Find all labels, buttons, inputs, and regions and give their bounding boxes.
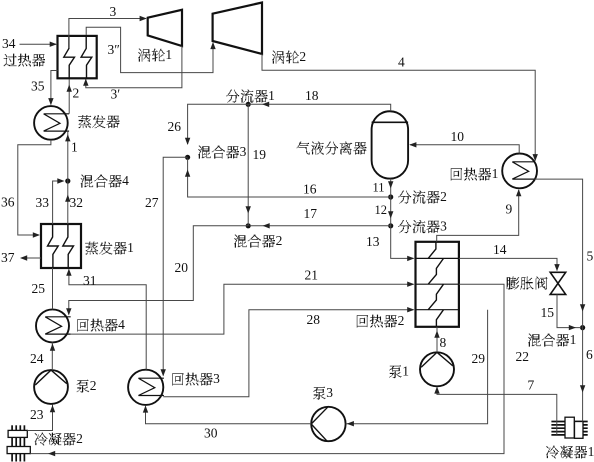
label 混合器4: [81, 173, 129, 188]
svg-text:19: 19: [253, 147, 267, 162]
evaporator 蒸发器: [34, 106, 69, 140]
wire 28 regenerator3 to regenerator2: [163, 307, 414, 397]
label 34: [2, 36, 16, 51]
condenser 冷凝器1: [551, 417, 587, 438]
svg-text:26: 26: [168, 119, 182, 134]
svg-text:29: 29: [472, 351, 486, 366]
svg-text:16: 16: [303, 182, 317, 197]
svg-text:3: 3: [326, 385, 333, 400]
node 混合器4: [65, 178, 70, 183]
label 27: [145, 195, 159, 210]
label 30: [204, 426, 218, 441]
svg-text:33: 33: [36, 195, 50, 210]
label 2: [73, 86, 80, 101]
label 25: [32, 281, 46, 296]
wire 37 evaporator1 outlet: [20, 255, 41, 260]
wire 26 splitter1 to mixer3: [185, 104, 248, 145]
wire 11 separator to splitter2: [388, 179, 393, 197]
node 分流器1: [246, 102, 251, 107]
label 31: [83, 273, 97, 288]
label 9: [506, 202, 513, 217]
label 分流器1: [226, 88, 275, 103]
regenerator 回热器2: [416, 242, 459, 327]
label 回热器3: [172, 371, 220, 386]
turbine 涡轮2: [213, 3, 262, 55]
condenser 冷凝器2: [7, 425, 30, 461]
svg-text:3: 3: [240, 144, 247, 159]
svg-text:34: 34: [2, 36, 16, 51]
wire 14 regenerator2 to valve: [459, 258, 560, 271]
pump 泵3: [311, 407, 345, 441]
regenerator 回热器3: [128, 370, 164, 405]
svg-text:3″: 3″: [108, 42, 120, 57]
label 回热器2: [357, 313, 405, 328]
label 冷凝器1: [546, 444, 594, 459]
label 3: [110, 4, 117, 19]
svg-text:1: 1: [570, 332, 577, 347]
svg-text:1: 1: [127, 240, 134, 255]
label 35: [31, 79, 45, 94]
svg-text:4: 4: [398, 55, 405, 70]
regenerator 回热器4: [36, 309, 71, 342]
wire 22 regenerator2 to condenser2: [30, 284, 504, 456]
label 28: [307, 312, 321, 327]
pump 泵2: [34, 370, 68, 404]
svg-text:36: 36: [1, 195, 15, 210]
svg-text:35: 35: [31, 79, 45, 94]
node 混合器3: [185, 155, 190, 160]
label 10: [451, 129, 465, 144]
svg-text:3: 3: [213, 371, 220, 386]
svg-text:23: 23: [30, 407, 44, 422]
label 37: [1, 250, 15, 265]
svg-text:2: 2: [299, 49, 306, 64]
label 泵1: [389, 364, 409, 379]
svg-text:2: 2: [276, 233, 283, 248]
svg-text:30: 30: [204, 426, 218, 441]
svg-text:22: 22: [516, 349, 530, 364]
label 蒸发器: [78, 115, 119, 128]
label 12: [375, 203, 388, 217]
label 8: [440, 335, 447, 350]
wire 34 inlet: [20, 42, 57, 47]
svg-text:28: 28: [307, 312, 321, 327]
svg-text:1: 1: [492, 166, 499, 181]
svg-text:25: 25: [32, 281, 46, 296]
svg-text:2: 2: [90, 378, 97, 393]
wire 33 evaporator1 to mixer4: [53, 178, 65, 224]
wire 16 splitter2 to mixer3: [185, 159, 391, 198]
label 分流器2: [398, 189, 447, 204]
label 26: [168, 119, 182, 134]
wire 30 regenerator2/pump3 to regenerator3: [143, 310, 488, 427]
regenerator 回热器1: [502, 154, 537, 189]
svg-text:4: 4: [122, 173, 129, 188]
label 7: [528, 378, 535, 393]
label 5: [587, 249, 594, 264]
wire 21 regenerator4 to regenerator2: [71, 282, 415, 335]
label 23: [30, 407, 44, 422]
expansion-valve 膨胀阀: [550, 272, 566, 294]
wire 19 splitter1 to mixer2: [246, 104, 251, 226]
wire 7 condenser1 to pump1: [434, 386, 557, 435]
svg-text:1: 1: [268, 88, 275, 103]
wire 1 mixer4 to evaporator: [65, 131, 70, 181]
node 分流器2: [388, 194, 393, 199]
wire 10 regenerator1 to separator: [409, 142, 519, 153]
label 15: [541, 305, 555, 320]
pump 泵1: [420, 352, 454, 386]
svg-text:1: 1: [165, 47, 172, 62]
label 11: [373, 180, 385, 194]
svg-text:15: 15: [541, 305, 555, 320]
wire 2 evaporator to superheater: [67, 80, 72, 114]
label 6: [586, 347, 593, 362]
svg-text:3: 3: [440, 219, 447, 234]
svg-text:4: 4: [118, 317, 125, 332]
svg-text:11: 11: [373, 180, 385, 194]
svg-text:27: 27: [145, 195, 159, 210]
wire 35 superheater to evaporator: [48, 71, 57, 106]
svg-text:2: 2: [73, 86, 80, 101]
svg-text:3′: 3′: [111, 87, 121, 102]
wire 27 mixer3 to regenerator3: [161, 157, 188, 376]
svg-text:6: 6: [586, 347, 593, 362]
svg-text:21: 21: [305, 268, 319, 283]
label 泵3: [313, 385, 333, 400]
wire 12 splitter2 to splitter3: [388, 197, 393, 226]
wire 5 regenerator1 to mixer1: [535, 179, 586, 328]
heat-exchanger 过热器 (superheater): [58, 36, 97, 78]
svg-text:2: 2: [76, 431, 83, 446]
svg-text:17: 17: [304, 206, 318, 221]
wire 24 pump2 to regenerator4: [50, 342, 55, 370]
svg-text:18: 18: [305, 88, 319, 103]
wire 3dprime superheater to turbine2: [86, 27, 216, 72]
label 冷凝器2: [35, 431, 83, 446]
svg-text:1: 1: [588, 444, 594, 459]
label 1: [71, 140, 78, 155]
evaporator 蒸发器1: [41, 224, 81, 268]
label 4: [398, 55, 405, 70]
wire 3 superheater to turbine1: [69, 16, 147, 48]
wire 25 evaporator1 to regenerator4: [52, 268, 54, 309]
label 22: [516, 349, 530, 364]
label 涡轮2: [272, 49, 306, 64]
label 19: [253, 147, 267, 162]
svg-text:5: 5: [587, 249, 594, 264]
label 混合器1: [528, 332, 576, 347]
label 24: [30, 351, 44, 366]
svg-text:7: 7: [528, 378, 535, 393]
label 36: [1, 195, 15, 210]
wire 32 evaporator1 to mixer4: [65, 181, 70, 224]
svg-text:13: 13: [366, 234, 380, 249]
label 21: [305, 268, 319, 283]
label 混合器3: [198, 144, 246, 159]
turbine 涡轮1: [148, 10, 182, 46]
wire 4 turbine2 to regenerator1: [262, 54, 538, 161]
svg-text:2: 2: [398, 313, 405, 328]
svg-text:8: 8: [440, 335, 447, 350]
label 29: [472, 351, 486, 366]
wire 13 splitter3 to regenerator2: [391, 226, 415, 261]
svg-text:14: 14: [493, 242, 507, 257]
label 32: [70, 195, 84, 210]
label 14: [493, 242, 507, 257]
label 20: [175, 260, 189, 275]
svg-text:10: 10: [451, 129, 465, 144]
wire 23 condenser2 to pump2: [27, 405, 55, 431]
node 混合器2: [246, 223, 251, 228]
wire 20 mixer2 to regenerator4: [66, 226, 248, 316]
wire 36 evaporator shell to evaporator1: [18, 140, 51, 238]
wire 3prime turbine1 outlet to superheater: [83, 46, 182, 88]
label 17: [304, 206, 318, 221]
label 气液分离器: [297, 142, 367, 155]
label 分流器3: [398, 219, 447, 234]
svg-text:9: 9: [506, 202, 513, 217]
label 13: [366, 234, 380, 249]
svg-text:1: 1: [71, 140, 78, 155]
wire 6 mixer1 to condenser1: [580, 328, 585, 422]
label 混合器2: [234, 233, 282, 248]
label 回热器1: [451, 166, 499, 181]
label 18: [305, 88, 319, 103]
svg-text:31: 31: [83, 273, 97, 288]
svg-text:20: 20: [175, 260, 189, 275]
label 蒸发器1: [85, 240, 134, 255]
svg-text:3: 3: [110, 4, 117, 19]
label 泵2: [77, 378, 97, 393]
label 3dprime: [108, 42, 120, 57]
node 分流器3: [388, 223, 393, 228]
label 33: [36, 195, 50, 210]
label 16: [303, 182, 317, 197]
label 涡轮1: [138, 47, 172, 62]
svg-text:12: 12: [375, 203, 388, 217]
label 过热器: [4, 54, 45, 67]
wire 31 regenerator3 to evaporator1: [66, 269, 146, 370]
wire 9 regenerator2 to regenerator1: [437, 189, 522, 242]
svg-text:1: 1: [402, 364, 409, 379]
wire 15 valve to mixer1: [557, 294, 581, 330]
svg-text:32: 32: [70, 195, 84, 210]
label 膨胀阀: [507, 277, 548, 290]
svg-text:37: 37: [1, 250, 15, 265]
label 3prime: [111, 87, 121, 102]
label 回热器4: [77, 317, 125, 332]
svg-text:24: 24: [30, 351, 44, 366]
node 混合器1: [580, 325, 585, 330]
wire 18 separator to splitter1: [248, 102, 391, 112]
svg-text:2: 2: [440, 189, 447, 204]
wire 17 splitter3 to mixer2: [250, 223, 391, 228]
wire 8 pump1 to regenerator2: [434, 327, 439, 353]
separator 气液分离器: [372, 111, 409, 178]
